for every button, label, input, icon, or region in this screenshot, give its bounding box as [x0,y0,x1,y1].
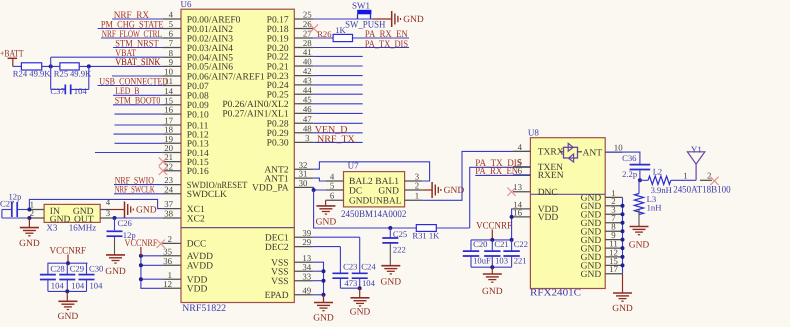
svg-text:U6: U6 [181,0,192,9]
svg-text:36: 36 [163,256,172,266]
svg-text:P0.22: P0.22 [267,53,289,63]
svg-text:P0.06/AIN7/AREF1: P0.06/AIN7/AREF1 [187,72,265,82]
svg-text:RFX2401C: RFX2401C [530,288,581,299]
svg-text:6: 6 [169,29,174,39]
svg-text:R31 1K: R31 1K [412,231,440,241]
svg-text:12p: 12p [123,230,136,240]
svg-text:5: 5 [169,19,174,29]
svg-text:C25: C25 [393,229,407,239]
svg-text:P0.00/AREF0: P0.00/AREF0 [187,15,241,25]
svg-text:222: 222 [393,244,406,254]
svg-text:GND: GND [378,187,399,197]
svg-text:GND: GND [444,186,465,196]
svg-text:P0.03/AIN4: P0.03/AIN4 [187,44,233,54]
svg-text:221: 221 [514,256,527,266]
svg-text:SW1: SW1 [352,0,370,10]
svg-text:VBAT_SINK: VBAT_SINK [115,57,161,68]
svg-text:STM_BOOT0: STM_BOOT0 [115,96,161,107]
svg-text:RXEN: RXEN [538,171,564,181]
svg-text:VSS: VSS [271,277,288,287]
svg-text:GND: GND [381,278,402,288]
svg-text:GND: GND [313,314,334,324]
svg-text:25: 25 [303,10,312,20]
svg-text:2450AT18B100: 2450AT18B100 [673,184,731,195]
svg-text:P0.07: P0.07 [187,82,209,92]
svg-text:DNC: DNC [538,188,558,198]
svg-text:2: 2 [707,171,711,181]
svg-text:P0.29: P0.29 [267,129,289,139]
svg-text:3: 3 [305,133,310,143]
svg-text:46: 46 [303,104,312,114]
svg-text:33: 33 [302,271,311,281]
svg-text:1: 1 [683,171,687,181]
svg-text:P0.28: P0.28 [267,120,289,130]
svg-text:47: 47 [303,114,312,124]
svg-text:4: 4 [518,142,523,152]
svg-text:SWDCLK: SWDCLK [187,190,227,200]
svg-text:P0.21: P0.21 [267,62,289,72]
svg-text:GND: GND [58,312,79,322]
svg-text:C24: C24 [361,262,376,272]
svg-text:27: 27 [303,29,312,39]
svg-text:DEC2: DEC2 [265,243,289,253]
svg-text:6: 6 [330,191,335,201]
svg-text:49: 49 [302,285,311,295]
svg-text:2: 2 [168,234,172,244]
svg-text:104: 104 [362,278,376,288]
svg-text:C20: C20 [473,239,487,249]
svg-text:GND: GND [403,15,424,25]
svg-text:TXRX: TXRX [538,148,564,158]
svg-text:GND: GND [629,241,650,251]
svg-text:P0.26/AIN0/XL2: P0.26/AIN0/XL2 [222,100,288,110]
svg-text:26: 26 [303,19,312,29]
svg-text:R24 49.9K: R24 49.9K [13,69,52,79]
svg-text:41: 41 [303,47,312,57]
svg-text:104: 104 [90,280,104,290]
svg-text:38: 38 [164,209,173,219]
svg-text:P0.30: P0.30 [267,139,289,149]
svg-text:10: 10 [164,67,173,77]
svg-text:PA_RX_EN: PA_RX_EN [475,166,518,177]
svg-text:NRF_SWCLK: NRF_SWCLK [115,185,156,196]
svg-text:GND: GND [482,287,503,297]
svg-text:9: 9 [169,57,174,67]
svg-text:104: 104 [51,280,65,290]
svg-text:1nH: 1nH [647,202,662,212]
svg-text:P0.16: P0.16 [187,167,209,177]
svg-text:C23: C23 [343,262,357,272]
svg-text:GND: GND [19,239,40,249]
svg-text:10uF: 10uF [473,256,491,266]
svg-text:GND: GND [136,206,157,216]
svg-text:4: 4 [106,197,111,207]
svg-text:16: 16 [513,207,522,217]
svg-text:GND: GND [350,307,371,317]
svg-text:2450BM14A0002: 2450BM14A0002 [341,209,406,220]
svg-text:L2: L2 [653,167,663,177]
svg-text:VSS: VSS [271,268,288,278]
svg-text:XC2: XC2 [187,214,205,224]
svg-text:AVDD: AVDD [187,262,213,272]
svg-text:R26: R26 [317,29,332,39]
svg-text:16MHz: 16MHz [69,223,97,233]
svg-text:PA_TX_DIS: PA_TX_DIS [365,39,408,50]
svg-text:2.2p: 2.2p [622,169,637,179]
svg-text:17: 17 [609,264,618,274]
svg-text:P0.19: P0.19 [267,34,289,44]
svg-text:C30: C30 [89,263,103,273]
svg-text:DCC: DCC [187,240,207,250]
svg-text:40: 40 [303,57,312,67]
svg-text:10: 10 [614,142,623,152]
svg-text:C26: C26 [118,218,133,228]
svg-text:P0.02/AIN3: P0.02/AIN3 [187,34,233,44]
svg-text:C29: C29 [70,263,84,273]
svg-text:1: 1 [415,191,419,201]
svg-text:GND: GND [612,304,633,314]
svg-text:103: 103 [495,256,508,266]
svg-text:104: 104 [71,280,85,290]
svg-text:44: 44 [303,85,312,95]
svg-text:P0.27/AIN1/XL1: P0.27/AIN1/XL1 [222,110,288,120]
svg-text:VDD_PA: VDD_PA [252,184,289,194]
svg-text:R25: R25 [54,69,68,79]
svg-text:VCCNRF: VCCNRF [476,220,512,231]
svg-text:29: 29 [302,237,311,247]
svg-text:P0.17: P0.17 [267,15,289,25]
svg-text:16: 16 [164,105,173,115]
svg-text:P0.05/AIN6: P0.05/AIN6 [187,63,233,73]
svg-text:P0.18: P0.18 [267,25,289,35]
svg-text:14: 14 [164,86,173,96]
svg-text:7: 7 [169,38,174,48]
svg-text:P0.08: P0.08 [187,92,209,102]
svg-text:DC: DC [349,187,362,197]
svg-text:12: 12 [163,279,172,289]
svg-text:GNDUNBAL: GNDUNBAL [349,197,402,207]
svg-text:48: 48 [303,123,312,133]
svg-text:ANT: ANT [583,148,603,158]
svg-text:30: 30 [299,178,308,188]
svg-text:GND: GND [316,218,337,228]
svg-text:34: 34 [302,262,311,272]
svg-text:VDD: VDD [538,213,559,223]
svg-text:P0.01/AIN2: P0.01/AIN2 [187,25,233,35]
svg-text:2: 2 [415,180,419,190]
svg-text:VDD: VDD [187,285,208,295]
svg-text:NRF_TX: NRF_TX [317,134,356,145]
svg-text:C37: C37 [50,86,65,96]
svg-text:49.9K: 49.9K [70,69,92,79]
svg-text:473: 473 [344,278,357,288]
svg-text:24: 24 [164,184,173,194]
svg-text:104: 104 [74,86,88,96]
svg-text:C22: C22 [514,239,528,249]
svg-text:4: 4 [169,10,174,20]
svg-text:C21: C21 [494,239,508,249]
svg-text:C28: C28 [50,263,64,273]
svg-text:5: 5 [330,180,335,190]
svg-text:NRF51822: NRF51822 [182,303,226,314]
svg-text:45: 45 [303,94,312,104]
svg-text:GND: GND [105,267,126,277]
svg-text:P0.25: P0.25 [267,91,289,101]
svg-text:U8: U8 [528,127,539,137]
svg-text:22: 22 [164,161,173,171]
svg-text:C36: C36 [622,153,637,163]
svg-text:C27: C27 [0,198,15,208]
svg-text:P0.10: P0.10 [187,110,209,120]
svg-text:Y1: Y1 [691,145,702,155]
svg-text:1K: 1K [335,25,346,35]
svg-text:X3: X3 [46,223,57,233]
svg-text:13: 13 [513,182,522,192]
svg-text:AVDD: AVDD [187,252,213,262]
svg-text:EPAD: EPAD [265,291,289,301]
svg-text:GND: GND [581,270,602,280]
